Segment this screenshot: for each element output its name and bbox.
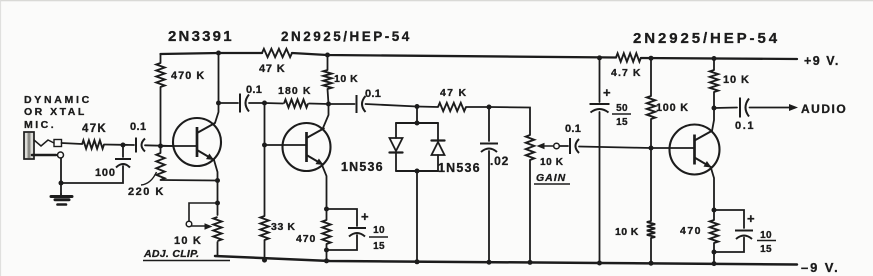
node Q1 base: [158, 144, 163, 149]
node Q3 emitter: [712, 208, 717, 213]
wire base drop Q2: [264, 103, 266, 145]
jack J1 sleeve contact: [32, 154, 56, 157]
node sleeve/cap return: [59, 181, 64, 186]
capacitor 100pf: [122, 146, 124, 157]
svg-text:4.7 K: 4.7 K: [611, 67, 642, 79]
resistor 220K: [160, 146, 162, 153]
svg-text:10 K: 10 K: [334, 73, 358, 85]
wire diode box bottom: [396, 170, 438, 172]
resistor 47K series rail: [262, 49, 292, 57]
node -9V rail: [415, 259, 420, 264]
wire Q2 emitter: [322, 165, 327, 209]
svg-text:1N536: 1N536: [438, 161, 481, 175]
wire 220K to emitter node: [161, 179, 218, 182]
node Q3 base: [649, 146, 654, 151]
resistor 4.7K rail: [616, 53, 641, 61]
svg-text:100: 100: [95, 167, 116, 179]
svg-text:2N3391: 2N3391: [168, 28, 234, 45]
pot wiper ADJ CLIP: [189, 203, 218, 221]
svg-text:47 K: 47 K: [259, 63, 285, 75]
audio arrowhead: [789, 104, 798, 111]
ground: [60, 194, 62, 196]
svg-text:2N2925/HEP-54: 2N2925/HEP-54: [281, 29, 412, 44]
node rail R10K3: [712, 56, 717, 61]
diode D1 1N536 left: [395, 123, 397, 138]
svg-text:0.1: 0.1: [735, 120, 755, 132]
svg-text:50: 50: [616, 103, 628, 114]
capacitor .02: [488, 107, 490, 141]
node .02 tap: [487, 105, 492, 110]
wire Q3 collector: [712, 108, 714, 131]
node emitter/220K: [215, 178, 220, 183]
svg-text:470: 470: [296, 233, 316, 245]
svg-text:33 K: 33 K: [271, 221, 296, 233]
resistor 470K: [156, 63, 164, 87]
transistor Q3 2N2925: [670, 125, 720, 175]
svg-text:+: +: [747, 211, 755, 226]
svg-text:15: 15: [373, 241, 385, 252]
node Q2 base: [262, 143, 267, 148]
svg-text:+9 V.: +9 V.: [804, 54, 840, 68]
scan edge left: [0, 0, 2, 276]
resistor 33K: [264, 145, 266, 216]
resistor 470 Q3: [713, 210, 715, 220]
svg-text:DYNAMIC: DYNAMIC: [24, 94, 92, 106]
node -9V rail: [597, 261, 602, 266]
capacitor 50/15: [599, 58, 601, 102]
svg-text:10 K: 10 K: [174, 235, 202, 247]
svg-text:+: +: [361, 209, 369, 224]
node rail T2C: [325, 53, 330, 58]
svg-text:47 K: 47 K: [440, 87, 467, 99]
leader 220K: [141, 172, 157, 185]
svg-text:15: 15: [616, 117, 628, 128]
svg-text:ADJ. CLIP.: ADJ. CLIP.: [143, 248, 199, 260]
capacitor 0.1 audio: [714, 107, 737, 110]
node Q3 collector: [712, 106, 717, 111]
node -9V rail: [528, 260, 533, 265]
svg-text:180 K: 180 K: [278, 85, 312, 97]
node Q3 bypass bottom: [712, 250, 717, 255]
svg-text:100 K: 100 K: [656, 102, 689, 114]
wire sleeve to ground: [60, 158, 62, 194]
capacitor 0.1 gain: [560, 145, 569, 147]
svg-text:47K: 47K: [82, 123, 107, 135]
capacitor 0.1 Q2 out: [329, 103, 355, 105]
node diode box bottom: [415, 169, 420, 174]
resistor 47K mixing: [417, 106, 438, 109]
node diode tap: [415, 104, 420, 109]
svg-text:10 K: 10 K: [723, 74, 750, 86]
transistor Q2 2N2925: [283, 123, 331, 171]
node -9V rail: [649, 261, 654, 266]
wire diodes to rail: [416, 171, 418, 262]
svg-text:15: 15: [760, 244, 772, 255]
node diode box top: [415, 121, 420, 126]
wire Q1 emitter: [214, 160, 218, 203]
potentiometer 10K GAIN: [526, 135, 534, 160]
wire diode box top: [396, 122, 438, 124]
node rail T1C: [216, 51, 221, 56]
scan edge top: [0, 0, 873, 2]
wire to GAIN pot: [489, 107, 530, 135]
svg-text:10: 10: [373, 225, 385, 236]
svg-text:AUDIO: AUDIO: [801, 102, 847, 116]
svg-text:0.1: 0.1: [565, 123, 581, 135]
wire rail to 470K: [160, 54, 162, 63]
svg-text:+: +: [603, 85, 611, 100]
node Q2 bypass bottom: [324, 248, 329, 253]
wire +9V rail mid: [292, 53, 616, 58]
resistor 10K Q2 load: [327, 55, 329, 70]
wire tip to 47K: [62, 143, 83, 144]
wire Q2 collector: [323, 104, 329, 128]
svg-text:MIC.: MIC.: [24, 119, 56, 131]
resistor 47K input: [82, 140, 104, 148]
node cap/180K/base: [262, 101, 267, 106]
capacitor 10/15 Q3: [714, 210, 744, 228]
svg-text:0.1: 0.1: [246, 84, 262, 96]
wire 47K to node: [104, 144, 134, 147]
wire +9V rail left: [161, 53, 263, 54]
potentiometer 10K ADJ CLIP: [217, 203, 219, 215]
wire -9V rail: [215, 256, 797, 265]
jack J1 body: [24, 132, 34, 159]
node -9V rail: [324, 258, 329, 263]
resistor 470 Q2: [326, 209, 328, 220]
node -9V rail: [712, 261, 717, 266]
resistor 10K bias: [650, 148, 652, 221]
svg-text:10 K: 10 K: [615, 226, 639, 238]
node Q2 emitter: [324, 207, 329, 212]
transistor Q1 2N3391: [173, 118, 221, 166]
node -9V rail: [487, 260, 492, 265]
capacitor 0.1 interstage: [219, 102, 239, 104]
node input: [121, 143, 126, 148]
svg-text:GAIN: GAIN: [536, 172, 566, 184]
node pot top: [215, 201, 220, 206]
wire cap to Q1 base: [145, 144, 173, 147]
resistor 180K: [265, 102, 284, 105]
jack J1 tip contact: [34, 140, 54, 146]
wire diode drop: [416, 107, 418, 124]
node Q2 collector: [326, 102, 331, 107]
resistor 10K Q3 load: [713, 59, 715, 71]
node rail R100K: [649, 56, 654, 61]
svg-text:.02: .02: [490, 154, 509, 168]
node rail C50: [597, 55, 602, 60]
svg-text:–9 V.: –9 V.: [801, 260, 840, 275]
svg-text:10 K: 10 K: [540, 157, 564, 168]
resistor 100K: [650, 58, 652, 96]
wire Q3 emitter: [711, 168, 714, 210]
svg-text:2N2925/HEP-54: 2N2925/HEP-54: [633, 30, 780, 47]
wire Q1 collector: [215, 53, 219, 123]
svg-text:0.1: 0.1: [130, 121, 147, 133]
svg-text:470 K: 470 K: [171, 70, 205, 82]
svg-text:OR XTAL: OR XTAL: [24, 106, 87, 118]
pot wiper GAIN: [537, 143, 545, 150]
svg-text:10: 10: [760, 230, 772, 241]
svg-text:1N536: 1N536: [341, 160, 384, 174]
svg-text:470: 470: [680, 225, 702, 237]
node Q1 collector/cap: [216, 101, 221, 106]
wire +9V rail right: [641, 58, 797, 59]
svg-text:0.1: 0.1: [365, 88, 381, 100]
node -9V rail: [262, 258, 267, 263]
wire 470K to base: [160, 87, 162, 146]
svg-text:220 K: 220 K: [128, 186, 165, 198]
capacitor 0.1 input: [135, 138, 137, 153]
diode D2 1N536 right: [437, 123, 439, 140]
capacitor 10/15 Q2: [327, 209, 358, 226]
